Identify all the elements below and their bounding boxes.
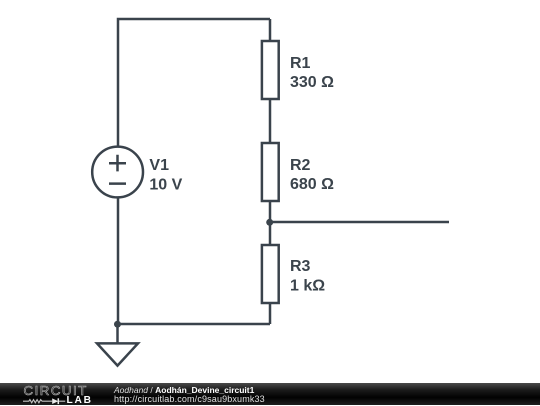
svg-text:V1: V1 xyxy=(149,157,169,174)
svg-text:680 Ω: 680 Ω xyxy=(290,176,334,193)
svg-text:330 Ω: 330 Ω xyxy=(290,74,334,91)
svg-text:R3: R3 xyxy=(290,258,311,275)
svg-text:1 kΩ: 1 kΩ xyxy=(290,278,325,295)
svg-text:R2: R2 xyxy=(290,157,311,174)
svg-text:R1: R1 xyxy=(290,55,311,72)
svg-text:10 V: 10 V xyxy=(149,176,182,193)
